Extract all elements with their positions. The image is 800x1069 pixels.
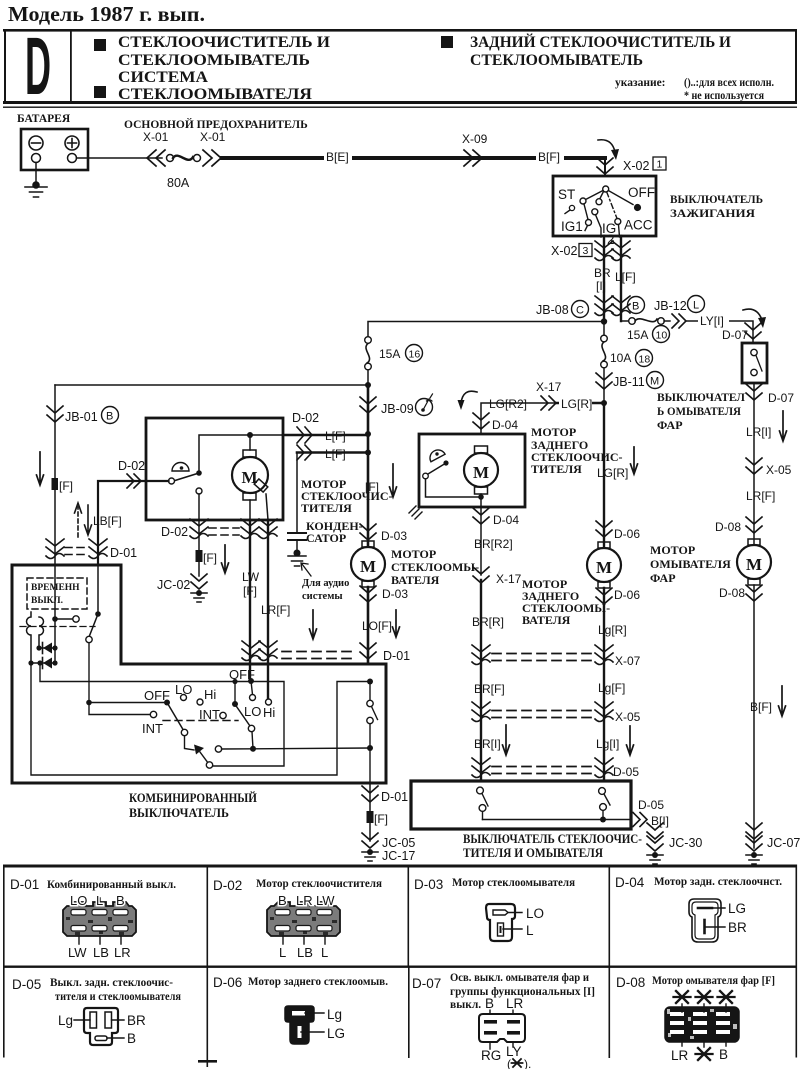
svg-text:выкл.: выкл. [450,999,481,1011]
wire below combo box [369,783,371,841]
connector arrows B(I) [633,813,647,827]
svg-text:10: 10 [656,330,668,342]
D-07 leaders [490,1008,513,1049]
label B(F) below [367,811,374,823]
svg-text:BR[R]: BR[R] [472,615,504,629]
column divider 2 row1 [408,866,410,966]
svg-text:15A: 15A [627,328,648,342]
svg-text:Lg[F]: Lg[F] [598,681,625,695]
svg-text:СТЕКЛООМЫВАТЕЛЬ: СТЕКЛООМЫВАТЕЛЬ [118,52,310,69]
svg-text:ТИТЕЛЯ: ТИТЕЛЯ [301,501,352,515]
wire: L(F) branch turn to fuse 15A-10 [621,320,628,322]
heavy wire B(E) to ignition [222,156,605,160]
connector mark X-02 on wire [597,158,613,174]
circle M [647,372,664,389]
combination switch box outline [12,565,386,783]
svg-text:JC-17: JC-17 [382,849,415,863]
svg-text:B: B [116,893,125,908]
flow arrow [780,411,787,441]
svg-text:СТЕКЛООМЫ-: СТЕКЛООМЫ- [391,560,479,574]
D-08 cross marks top [674,991,735,1003]
park switch cam [172,463,189,472]
divider after D [70,31,72,101]
connector mark D-08 lower [746,585,762,601]
svg-text:B: B [485,996,494,1011]
park contact below [196,488,202,494]
svg-text:ФАР: ФАР [657,418,683,432]
D-05 slots [90,1012,97,1028]
wiper switch feed line [86,700,92,706]
D-08 leaders [682,1004,726,1047]
svg-text:18: 18 [639,354,651,366]
svg-text:LR: LR [506,996,524,1011]
svg-text:LR[F]: LR[F] [746,489,775,503]
junction at LG(R) branch [601,400,607,406]
svg-text:* не используется: * не используется [684,90,764,102]
svg-text:JC-05: JC-05 [382,836,415,850]
connector mark D-04 upper [473,413,489,429]
svg-text:B: B [127,1031,136,1046]
wire: battery to fuse [77,157,163,159]
svg-text:M: M [360,557,376,576]
dashes between D-01 marks [65,548,88,555]
svg-text:D-04: D-04 [493,513,519,527]
D-01 pins [71,910,128,932]
ST terminal [569,205,574,210]
timer lever from LB wire [97,565,99,614]
svg-text:ВЫКЛ.: ВЫКЛ. [31,596,63,606]
svg-text:ВЫКЛЮЧАТЕЛ: ВЫКЛЮЧАТЕЛ [657,390,745,404]
svg-text:LB: LB [297,945,313,960]
dashed up arrow [77,507,79,537]
svg-text:ФАР: ФАР [650,571,676,585]
flow arrow Lg [627,726,634,755]
svg-text:ВЫКЛЮЧАТЕЛЬ: ВЫКЛЮЧАТЕЛЬ [129,805,229,820]
svg-text:БАТАРЕЯ: БАТАРЕЯ [17,113,71,125]
ignition rotor pivot [603,186,609,192]
right switch in box [599,788,606,795]
svg-text:D-06: D-06 [614,588,640,602]
svg-text:МОТОР: МОТОР [531,425,576,439]
svg-text:LO: LO [244,704,261,719]
curved arrow annotation at LY turn [743,309,762,320]
washer switch 2 pivot [232,701,238,707]
inner top wire of wiper motor [199,435,283,471]
svg-text:INT: INT [199,707,220,722]
wire below rear washer motor [603,588,605,780]
connector mark JB-01 [47,406,63,422]
svg-text:системы: системы [302,591,343,602]
chassis hatch at box corner [409,506,422,519]
svg-text:D-03: D-03 [414,877,443,892]
svg-text:Мотор омывателя фар [F]: Мотор омывателя фар [F] [652,975,775,987]
svg-text:D: D [25,22,51,113]
table row divider [3,966,797,968]
fuse 10A (18) [601,335,608,342]
svg-text:D-02: D-02 [161,525,188,539]
condenser [288,533,306,540]
svg-text:RG: RG [481,1048,501,1063]
wash bus line [222,748,371,749]
label B(E) [324,150,352,163]
svg-text:ТИТЕЛЯ И ОМЫВАТЕЛЯ: ТИТЕЛЯ И ОМЫВАТЕЛЯ [463,846,603,860]
svg-text:L[F]: L[F] [325,429,346,443]
junction node JB-08 [601,318,607,324]
connector arrows X-01 right [203,150,221,166]
bullet square 2 [94,86,106,98]
svg-text:M: M [473,463,489,482]
battery ground wire [35,163,37,186]
svg-text:B[F]: B[F] [750,700,772,714]
wire: long bus to JB-01 [55,384,368,386]
svg-text:M: M [650,376,659,388]
svg-text:ВЫКЛЮЧАТЕЛЬ СТЕКЛООЧИС-: ВЫКЛЮЧАТЕЛЬ СТЕКЛООЧИС- [463,832,642,846]
solid down arrow [85,505,92,535]
crossing X-07: marks on BR and Lg wires [472,645,490,665]
wire BR(I) from ignition down [603,236,605,322]
svg-text:LR: LR [296,893,313,908]
svg-text:D-04: D-04 [615,875,645,890]
circle B JB-01 [102,407,119,424]
svg-text:ЗАЖИГАНИЯ: ЗАЖИГАНИЯ [670,206,755,220]
wiper motor M [249,435,251,450]
IG2 contact [592,209,598,215]
fusible link 80A [167,155,174,162]
svg-text:80A: 80A [167,176,190,190]
wiper motor box [146,418,283,520]
svg-text:BR: BR [594,266,611,280]
rear park cam [427,447,445,462]
svg-text:JB-09: JB-09 [381,402,414,416]
svg-text:B[E]: B[E] [326,150,349,164]
flow arrow JB-01 [37,452,44,485]
circle 18 [636,350,653,367]
connector marks JB-08 [595,296,613,316]
svg-text:LY[I]: LY[I] [700,314,724,328]
fuse 15A (10) [629,318,636,325]
connector mark D-07 lower [746,384,762,400]
dashes D-01 left of feeder [282,652,356,659]
wire L(F) from ignition down [620,236,622,321]
bullet square 3 [441,36,453,48]
svg-text:JC-02: JC-02 [157,578,190,592]
svg-text:B: B [719,1047,728,1062]
svg-text:X-09: X-09 [462,132,488,146]
junction above motor [247,432,253,438]
svg-text:B: B [278,893,287,908]
D-01 body speckle [66,917,133,935]
connector marks D-01 LW LR [242,641,260,661]
connector mark D-04 lower [473,508,489,524]
connector mark JB-09 [360,397,376,413]
connector mark D-06 upper [596,521,612,537]
connector mark D-01 on feeder [360,643,376,659]
D-01 pin leaders top [79,898,121,902]
svg-text:Выкл. задн. стеклоочис-: Выкл. задн. стеклоочис- [50,977,173,989]
svg-text:СИСТЕМА: СИСТЕМА [118,69,209,86]
svg-text:D-08: D-08 [719,586,745,600]
flow arrow BR [503,725,510,755]
washer motor [362,541,374,547]
svg-text:[F]: [F] [203,551,217,565]
crossing X-05 marks [472,702,490,722]
headlamp washer switch box [742,343,767,383]
svg-text:BR[F]: BR[F] [474,682,505,696]
connector arrows D-02 left [127,474,141,488]
ground JC-07 [746,823,762,839]
battery ground [25,182,47,197]
svg-text:3: 3 [583,245,589,257]
connector mark D-08 upper [746,517,762,533]
svg-text:Осв. выкл. омывателя фар и: Осв. выкл. омывателя фар и [450,972,589,984]
rear wiper motor box [419,434,525,507]
svg-text:OFF: OFF [628,185,655,200]
wire: rear washer feed down [603,403,605,546]
dashes X-05 [492,711,592,718]
svg-text:L: L [96,893,103,908]
circle wiper symbol [416,399,433,416]
label: for audio system [301,563,311,576]
return bus to wash switch [31,663,370,775]
junction to JB-01 bus [365,382,371,388]
junction upper L(F) [365,431,371,437]
ground JC-05 JC-17 [362,833,378,861]
svg-text:JC-07: JC-07 [767,836,800,850]
D-02 pin leaders [283,898,325,944]
ignition switch box [553,176,656,236]
wire below headlamp washer motor [753,585,755,848]
wire below washer motor [367,587,370,664]
svg-text:X-05: X-05 [615,710,641,724]
svg-text:LO: LO [526,906,544,921]
D-08 body speckle [667,1009,737,1039]
svg-text:L: L [693,300,699,312]
junction lower L(F) [365,450,371,456]
header right border [795,29,797,103]
svg-text:D-05: D-05 [638,798,664,812]
connector mark D-06 lower [596,588,612,604]
svg-text:()..:для всех исполн.: ()..:для всех исполн. [684,77,774,89]
battery plus terminal [65,136,79,150]
connector mark D-03 lower [360,586,376,602]
svg-text:Lg: Lg [58,1013,73,1028]
svg-text:X-02: X-02 [551,244,577,258]
lever ST branch to IG1 [584,204,588,220]
svg-text:LG: LG [728,901,746,916]
condenser drop wire [296,453,298,534]
wire from lever down [88,643,90,703]
washer lever path [185,736,195,750]
svg-text:C: C [576,305,584,317]
connector mark X-05 right [746,458,762,474]
svg-text:LG[R]: LG[R] [597,466,628,480]
svg-text:X-01: X-01 [200,130,226,144]
label B(F) [536,150,564,163]
svg-text:ACC: ACC [624,218,653,233]
header left border [4,29,6,103]
svg-text:[F]: [F] [59,479,73,493]
svg-text:D-08: D-08 [616,975,645,990]
svg-text:L: L [526,923,534,938]
svg-text:ST: ST [558,187,575,202]
D-01 pin leaders bottom [79,936,121,944]
svg-text:СТЕКЛООЧИСТИТЕЛЬ И: СТЕКЛООЧИСТИТЕЛЬ И [118,34,330,51]
svg-text:Мотор стеклоомывателя: Мотор стеклоомывателя [452,877,575,889]
svg-text:[F]: [F] [374,812,388,826]
D-04 leaders [705,908,726,927]
svg-text:ВЫКЛЮЧАТЕЛЬ: ВЫКЛЮЧАТЕЛЬ [670,192,763,206]
svg-text:JB-08: JB-08 [536,303,569,317]
svg-text:JB-11: JB-11 [613,375,645,389]
connector arrows upper L(F) [297,427,312,443]
connector mark X-17 on BR wire [473,567,489,583]
rear washer motor [598,542,610,548]
svg-text:BR[R2]: BR[R2] [474,537,513,551]
svg-text:LG: LG [327,1026,345,1041]
table top border [3,865,797,868]
D-04 slots [698,907,712,910]
svg-text:ВАТЕЛЯ: ВАТЕЛЯ [522,613,571,627]
svg-text:D-01: D-01 [383,649,410,663]
wires out of wiper motor box bottom [198,520,200,576]
svg-text:ОСНОВНОЙ ПРЕДОХРАНИТЕЛЬ: ОСНОВНОЙ ПРЕДОХРАНИТЕЛЬ [124,117,308,131]
D-02 connector body [267,902,340,936]
svg-text:тителя и стеклоомывателя: тителя и стеклоомывателя [55,991,181,1003]
wiper switch contacts LO Hi INT [181,695,187,701]
svg-text:B[F]: B[F] [538,150,560,164]
svg-text:D-05: D-05 [613,765,639,779]
svg-text:OFF: OFF [229,667,255,682]
svg-text:LR: LR [114,945,131,960]
svg-text:D-04: D-04 [492,418,518,432]
label (F) on JB-01 wire [52,478,59,490]
motor leads to box bottom [249,500,251,520]
svg-text:Ь ОМЫВАТЕЛЯ: Ь ОМЫВАТЕЛЯ [657,404,741,418]
timer dashed box [27,578,87,609]
flow arrow feeder [390,464,397,497]
connector arrows X-09 [464,150,482,166]
svg-text:B: B [632,301,639,313]
svg-text:X-07: X-07 [615,654,641,668]
svg-text:Для аудио: Для аудио [302,578,349,589]
svg-text:D-02: D-02 [213,878,242,893]
svg-text:D-01: D-01 [381,790,408,804]
feeder wire down [367,385,370,546]
svg-text:[F]: [F] [243,584,257,598]
circle B [628,297,645,314]
connector arrows lower L(F) [297,445,312,460]
diode 2 [28,660,33,665]
upper L(F) wire to feeder [283,434,368,437]
LR wire to Hi contact [266,699,272,705]
connector arrows X-17 [541,396,556,410]
svg-text:BR: BR [127,1013,146,1028]
svg-text:INT: INT [142,721,163,736]
column divider 3 [609,866,611,1058]
label LG(R) on wire [559,398,592,410]
svg-text:LG[R2]: LG[R2] [489,397,527,411]
wiper switch OFF pivot [164,700,170,706]
condenser ground [288,550,306,566]
wire LY(I) to D-07 [686,321,753,343]
svg-text:МОТОР: МОТОР [650,543,695,557]
circle C [572,301,589,318]
ground JC-02 [191,574,207,602]
svg-text:Hi: Hi [204,687,216,702]
contact line to IG branch [600,192,604,200]
connector mark D-03 upper [360,524,376,540]
fuse 15A (16) [365,337,372,344]
feeder switch in box [367,679,373,685]
dashes X-07 [492,654,592,661]
circle L [688,296,705,313]
svg-text:BR: BR [728,920,747,935]
svg-text:).: ). [524,1057,531,1069]
svg-text:САТОР: САТОР [306,531,346,545]
svg-text:[I]: [I] [596,279,606,293]
header top rule [3,29,797,32]
svg-text:Lg: Lg [327,1007,342,1022]
svg-text:LR[I]: LR[I] [746,425,771,439]
wiper washer switch box [411,781,631,829]
circle 16 [406,345,423,362]
svg-text:LG[R]: LG[R] [561,397,592,411]
table right border [796,865,798,1058]
D-07 slots [484,1020,520,1035]
timer feed wire x55 [54,565,56,663]
connector marks D-02 below box [190,519,208,539]
svg-text:L[F]: L[F] [615,270,636,284]
bus from diodes [37,660,42,665]
svg-text:JB-12: JB-12 [654,299,687,313]
connector mark D-01 LB wire [89,539,107,559]
svg-text:X-02: X-02 [623,159,649,173]
rear park wire to motor lead [426,479,482,497]
wire from park switch left out of box [98,481,169,565]
svg-text:X-05: X-05 [766,463,792,477]
svg-text:LR[F]: LR[F] [261,603,290,617]
curved arrow annotation at bus turn [598,140,615,152]
svg-text:D-01: D-01 [110,546,137,560]
lower L(F) wire to feeder [297,451,368,454]
svg-text:L[F]: L[F] [325,447,346,461]
D-08 slots [670,1012,730,1034]
D-08 connector body [665,1007,739,1042]
wire: down from bus to ignition switch [604,158,606,176]
D-03 slots [493,910,508,915]
dashes D-05 [492,767,592,774]
rear park lever [443,460,448,465]
battery BATT box [21,129,88,170]
rear motor M [475,446,488,453]
wire LG(R) from JB-11 node [556,402,604,405]
svg-text:15A: 15A [379,347,400,361]
section letter D [25,22,51,113]
dashes between [209,528,239,535]
connector arrows X-01 left [147,150,165,166]
svg-text:ОМЫВАТЕЛЯ: ОМЫВАТЕЛЯ [650,557,731,571]
park switch lever [196,470,202,476]
label LY(I) [698,315,729,327]
D-02 pins [275,910,332,932]
svg-text:1: 1 [657,159,663,171]
svg-text:ТИТЕЛЯ: ТИТЕЛЯ [531,462,582,476]
svg-text:B: B [106,411,113,423]
bullet square 1 [94,39,106,51]
svg-text:M: M [746,555,762,574]
wire JB-01 down [54,385,56,565]
svg-text:OFF: OFF [144,688,170,703]
